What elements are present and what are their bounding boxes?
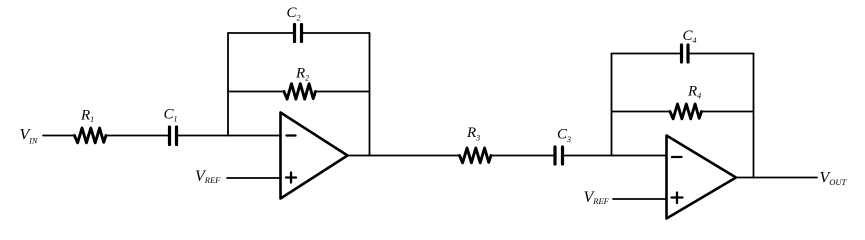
svg-text:C4: C4	[683, 28, 697, 45]
svg-text:C2: C2	[287, 5, 301, 23]
wire R4 branch left	[612, 111, 671, 113]
capacitor C4	[680, 45, 683, 62]
wire feedback 2 top rail right segment	[690, 53, 754, 55]
wire C3 to op-amp U2 inverting input (through node B)	[565, 155, 667, 157]
wire op-amp U1 output to R3	[348, 155, 460, 157]
resistor R4	[670, 104, 702, 119]
resistor R2	[284, 84, 315, 99]
svg-text:VIN: VIN	[20, 127, 38, 146]
svg-text:VREF: VREF	[195, 168, 221, 185]
wire R2 branch right	[316, 91, 370, 93]
wire R4 branch right	[701, 111, 754, 113]
resistor R1	[75, 128, 107, 143]
capacitor C1	[168, 127, 171, 145]
wire feedback 2 right vertical down to output	[753, 54, 755, 178]
wire R3 to C3	[491, 155, 554, 157]
svg-text:C3: C3	[557, 127, 571, 145]
wire node A up to feedback top rail	[227, 33, 229, 136]
svg-text:R2: R2	[295, 66, 309, 83]
capacitor C3	[553, 147, 556, 164]
wire C1 to op-amp inverting input (through node A)	[178, 135, 281, 137]
op-amp U1	[281, 113, 348, 199]
wire op-amp U2 output to V_OUT	[736, 177, 817, 179]
non-inverting input marker (+)	[672, 196, 683, 198]
inverting input marker (-)	[672, 156, 682, 158]
wire V_IN to R1	[43, 135, 75, 137]
capacitor C2	[293, 25, 296, 42]
resistor R3	[460, 148, 491, 163]
svg-text:VREF: VREF	[584, 189, 610, 206]
wire R2 branch left	[228, 91, 284, 93]
wire V_REF to non-inverting input	[227, 177, 281, 179]
svg-text:R1: R1	[80, 108, 94, 125]
wire feedback right vertical down to output	[369, 33, 371, 156]
svg-text:R4: R4	[687, 84, 701, 101]
wire V_REF to non-inverting input (stage 2)	[613, 198, 667, 200]
svg-text:VOUT: VOUT	[820, 170, 848, 188]
svg-text:C1: C1	[164, 107, 178, 124]
wire node B up to feedback 2 top rail	[611, 54, 613, 156]
inverting input marker (-)	[287, 134, 296, 136]
wire R1 to C1	[106, 135, 169, 137]
wire feedback top rail right segment	[303, 32, 370, 34]
non-inverting input marker (+)	[286, 176, 296, 178]
op-amp U2	[667, 136, 737, 219]
svg-text:R3: R3	[466, 125, 480, 143]
wire feedback 2 top rail left segment	[612, 53, 680, 55]
wire feedback top rail left segment	[228, 32, 293, 34]
